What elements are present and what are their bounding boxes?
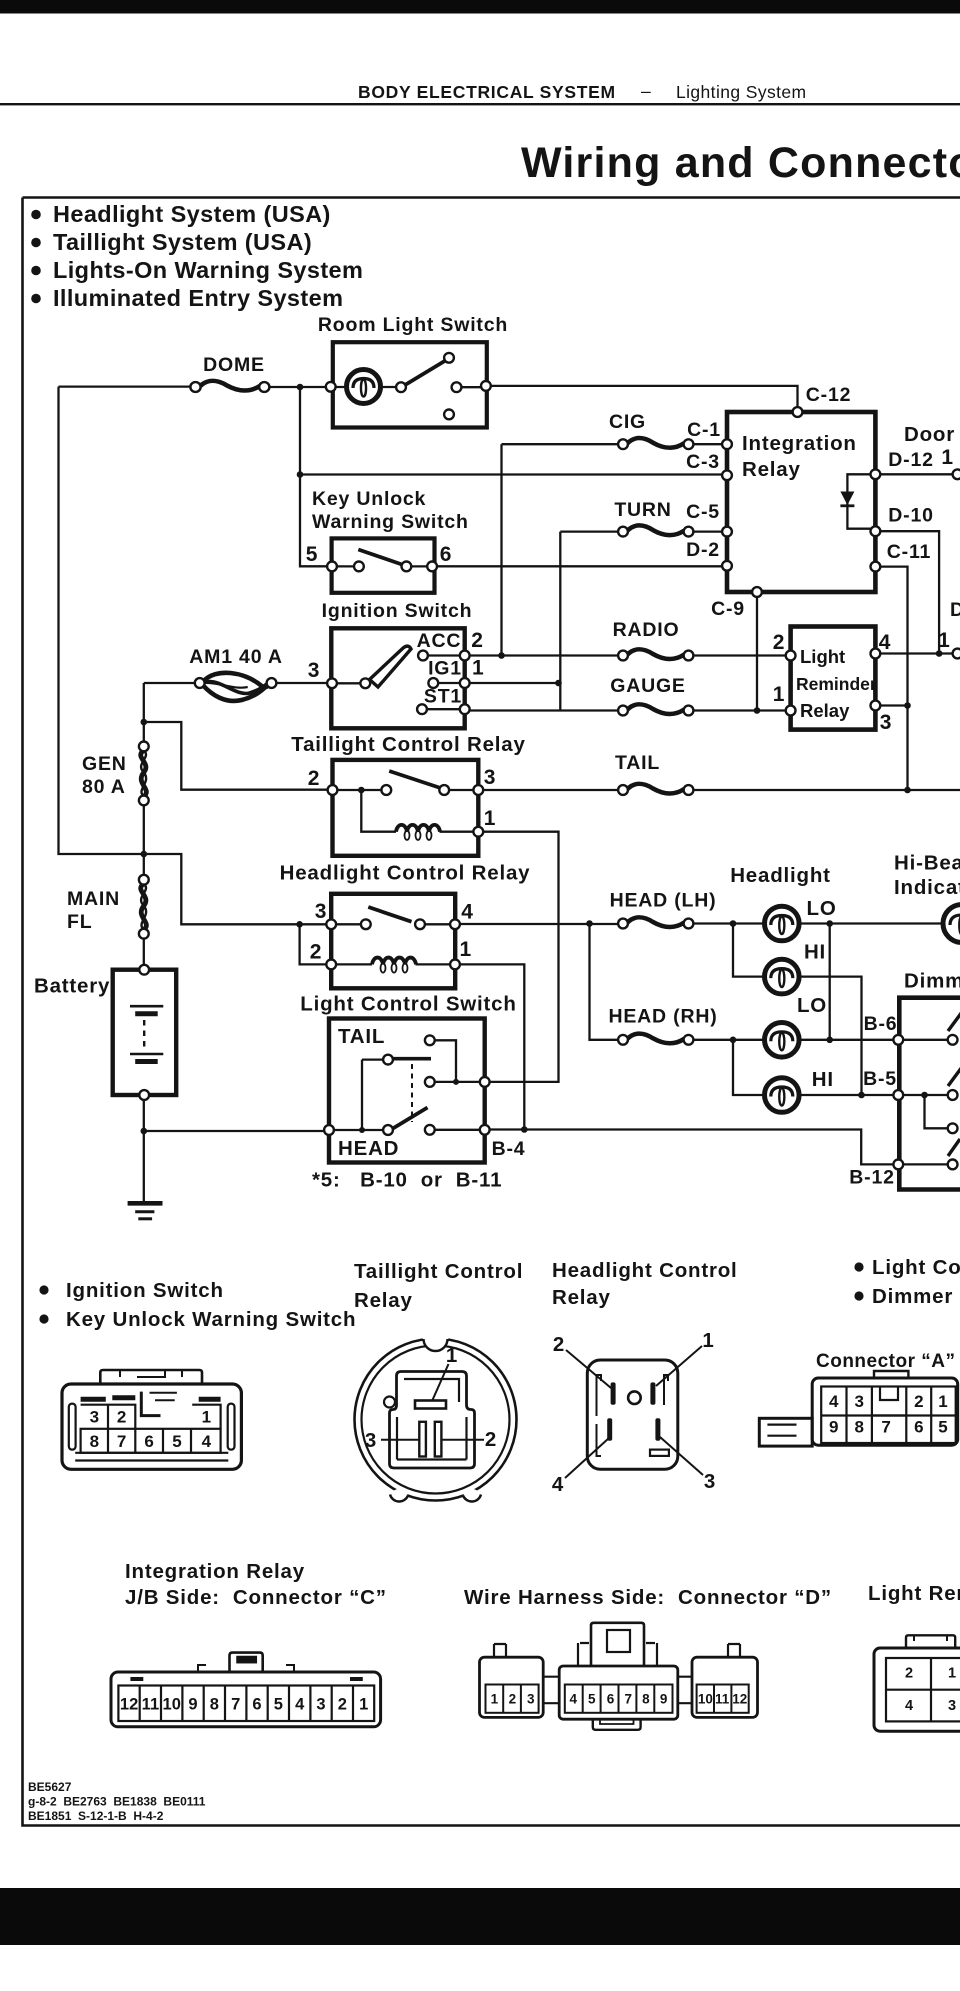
junction HI RH branch (730, 1037, 737, 1044)
diagram frame (23, 198, 960, 1826)
wire room switch out to C-12 (487, 386, 798, 411)
header rule (0, 103, 960, 105)
svg-text:4: 4 (295, 1696, 305, 1714)
svg-text:2: 2 (773, 631, 785, 654)
wire headlight relay coil 1 to HEAD row (460, 964, 525, 1129)
fuse CIG (618, 438, 693, 449)
svg-text:1: 1 (484, 807, 496, 830)
wire HI(RH) branch (733, 1040, 894, 1095)
wire IG1 stub (470, 682, 559, 684)
fusible link GEN 80 A (139, 742, 149, 806)
svg-text:Relay: Relay (742, 458, 801, 481)
svg-text:Headlight: Headlight (730, 864, 831, 887)
svg-text:C-11: C-11 (887, 541, 931, 563)
svg-text:80 A: 80 A (82, 776, 126, 798)
svg-text:HEAD (LH): HEAD (LH) (610, 890, 717, 912)
relay Headlight Control Relay (280, 862, 531, 989)
svg-text:FL: FL (67, 911, 92, 933)
svg-text:D-12: D-12 (888, 449, 933, 471)
svg-text:8: 8 (90, 1432, 99, 1451)
junction B-5 internal (921, 1092, 928, 1099)
svg-text:Light Control Switch: Light Control Switch (300, 993, 516, 1016)
svg-text:C-3: C-3 (686, 451, 720, 473)
svg-text:10: 10 (163, 1696, 181, 1714)
junction D-10 / reminder 4 (936, 650, 943, 657)
svg-text:CIG: CIG (609, 411, 646, 433)
svg-text:2: 2 (905, 1666, 913, 1682)
wire headlight relay 2 bypass (300, 924, 331, 964)
svg-text:2: 2 (914, 1392, 923, 1411)
junction HEAD row / relay coil (521, 1126, 528, 1133)
svg-text:4: 4 (905, 1698, 913, 1714)
svg-text:12: 12 (732, 1692, 747, 1707)
wire ACC-RADIO row (470, 654, 790, 656)
wire TURN feed (560, 532, 726, 711)
svg-text:8: 8 (210, 1696, 219, 1714)
svg-text:4: 4 (202, 1432, 212, 1451)
svg-text:Hi-Beam: Hi-Beam (894, 852, 960, 875)
svg-text:Dimmer Sw: Dimmer Sw (904, 970, 960, 993)
svg-text:5: 5 (588, 1692, 596, 1707)
svg-text:9: 9 (188, 1696, 197, 1714)
svg-text:Reminder: Reminder (796, 674, 877, 694)
svg-text:1: 1 (202, 1408, 211, 1427)
svg-text:Lights-On Warning System: Lights-On Warning System (53, 257, 363, 283)
svg-text:7: 7 (117, 1432, 126, 1451)
junction HI join B-5 (858, 1092, 865, 1099)
svg-text:BE1851 S-12-1-B H-4-2: BE1851 S-12-1-B H-4-2 (28, 1809, 164, 1823)
junction LO link top (826, 920, 833, 927)
svg-text:10: 10 (698, 1692, 713, 1707)
wire dome fuse to junction to switch (269, 386, 330, 388)
svg-text:Indicator: Indicator (894, 876, 960, 899)
svg-text:Door Cou: Door Cou (904, 423, 960, 446)
wire HEAD row out to B-12 (490, 1130, 894, 1165)
svg-text:Ignition Switch: Ignition Switch (322, 600, 473, 622)
wire branch to headlight relay 3 (144, 854, 330, 924)
ground (128, 1203, 163, 1219)
wire left rail down (59, 387, 144, 854)
svg-text:1: 1 (460, 938, 472, 961)
svg-text:C-12: C-12 (806, 384, 851, 406)
svg-text:DOME: DOME (203, 354, 265, 376)
svg-text:Headlight System (USA): Headlight System (USA) (53, 201, 331, 227)
svg-text:B-12: B-12 (849, 1167, 894, 1189)
svg-text:5: 5 (274, 1696, 283, 1714)
svg-text:2: 2 (117, 1408, 126, 1427)
svg-text:3: 3 (365, 1429, 377, 1452)
svg-text:5: 5 (306, 543, 318, 566)
wire dimmer B-6 internal (903, 1039, 948, 1041)
switch Room Light Switch (318, 314, 508, 428)
wire TAIL fuse row (483, 789, 960, 791)
svg-text:TAIL: TAIL (338, 1025, 385, 1048)
svg-text:1: 1 (773, 683, 785, 706)
fuse RADIO (618, 649, 693, 660)
svg-text:6: 6 (607, 1692, 615, 1707)
connector C (12-pin) (111, 1653, 381, 1727)
svg-text:g-8-2 BE2763 BE1838 BE0111: g-8-2 BE2763 BE1838 BE0111 (28, 1795, 206, 1809)
svg-text:IG1: IG1 (428, 658, 462, 680)
svg-text:Taillight Control: Taillight Control (354, 1260, 523, 1283)
svg-text:7: 7 (624, 1692, 632, 1707)
svg-text:7: 7 (881, 1418, 890, 1437)
svg-text:2: 2 (338, 1696, 347, 1714)
svg-text:Wire Harness Side: Connector: Wire Harness Side: Connector “D” (464, 1586, 832, 1609)
svg-text:3: 3 (704, 1470, 716, 1493)
lower section bullet: ignition switch (39, 1285, 48, 1294)
svg-text:Headlight Control Relay: Headlight Control Relay (280, 862, 531, 885)
svg-text:C-9: C-9 (711, 598, 745, 620)
svg-text:AM1 40 A: AM1 40 A (189, 646, 282, 668)
lower section bullet: key unlock warning switch (39, 1314, 48, 1323)
svg-text:Integration Relay: Integration Relay (125, 1560, 305, 1583)
svg-text:11: 11 (715, 1692, 730, 1707)
wire branch to taillight relay 2 (144, 722, 332, 790)
svg-text:Light: Light (800, 646, 845, 667)
bottom black bar (0, 1888, 960, 1945)
ignition key wedge (370, 646, 412, 687)
svg-text:3: 3 (90, 1408, 99, 1427)
svg-text:11: 11 (142, 1696, 159, 1714)
svg-text:Integration: Integration (742, 432, 857, 455)
wire D-2 row (437, 565, 727, 567)
svg-text:1: 1 (472, 657, 484, 680)
svg-text:RADIO: RADIO (613, 619, 680, 641)
svg-text:D: D (950, 599, 960, 621)
wire D-12 out to door courtesy (880, 473, 953, 475)
svg-text:MAIN: MAIN (67, 888, 120, 910)
svg-text:LO: LO (797, 994, 827, 1017)
lamp in room light switch (347, 370, 381, 404)
junction battery out (141, 1128, 148, 1135)
top black bar (0, 0, 960, 14)
svg-text:6: 6 (252, 1696, 261, 1714)
svg-text:5: 5 (172, 1432, 181, 1451)
svg-text:4: 4 (552, 1473, 564, 1496)
wire HEAD(LH) row (460, 922, 942, 925)
svg-text:4: 4 (570, 1692, 578, 1707)
relay Light Reminder Relay (773, 627, 892, 735)
svg-text:3: 3 (527, 1692, 535, 1707)
fuse HEAD (RH) (618, 1034, 693, 1045)
svg-text:2: 2 (308, 767, 320, 790)
footer figure codes (28, 1780, 206, 1823)
svg-text:1: 1 (938, 1392, 947, 1411)
wire C-9 drop (756, 593, 758, 711)
fuse HEAD (LH) (618, 917, 693, 928)
connector A (759, 1371, 957, 1446)
svg-text:C-1: C-1 (687, 419, 721, 441)
junction LO link bottom (826, 1037, 833, 1044)
lamp headlight HI (RH) (765, 1078, 800, 1113)
svg-text:3: 3 (484, 766, 496, 789)
connector D (12-pin, 3 blocks) (480, 1623, 758, 1730)
svg-text:Key Unlock: Key Unlock (312, 488, 426, 510)
svg-text:3: 3 (854, 1392, 863, 1411)
wire ST1-GAUGE row (470, 709, 790, 711)
connector headlight control relay (square) (565, 1346, 703, 1478)
junction HEAD RH branch (586, 920, 593, 927)
lamp headlight LO (LH) (765, 906, 800, 941)
svg-text:Battery: Battery (34, 975, 110, 998)
switch Light Control Switch (300, 993, 525, 1163)
svg-text:GEN: GEN (82, 753, 127, 775)
wire D-10 down to reminder 4 row (880, 531, 939, 653)
svg-text:D-10: D-10 (888, 505, 933, 527)
svg-text:ST1: ST1 (424, 686, 462, 708)
svg-text:3: 3 (948, 1698, 956, 1714)
fuse TURN (618, 525, 693, 536)
fuse DOME (190, 381, 269, 392)
switch Dimmer Switch (849, 970, 960, 1190)
wire dimmer B-12 internal (903, 1163, 948, 1165)
wire HI(LH) branch (733, 924, 862, 1096)
svg-text:BE5627: BE5627 (28, 1780, 72, 1794)
connector taillight control relay (round) (355, 1339, 517, 1501)
svg-text:HI: HI (804, 941, 826, 964)
junction headlight relay 2 (296, 921, 303, 928)
svg-text:1: 1 (446, 1344, 458, 1367)
junction C-11 / reminder 3 (904, 702, 911, 709)
svg-text:Relay: Relay (552, 1286, 611, 1309)
svg-text:J/B Side: Connector “C”: J/B Side: Connector “C” (125, 1586, 387, 1609)
svg-text:HI: HI (812, 1068, 834, 1091)
svg-text:GAUGE: GAUGE (610, 675, 686, 697)
junction TAIL row (904, 787, 911, 794)
connector ignition switch (8-pin) (62, 1370, 241, 1469)
junction AM1 rail (141, 719, 148, 726)
svg-text:LO: LO (807, 897, 837, 920)
svg-text:12: 12 (120, 1696, 138, 1714)
svg-text:Warning Switch: Warning Switch (312, 511, 469, 533)
svg-text:ACC: ACC (417, 630, 462, 652)
svg-text:1: 1 (948, 1666, 956, 1682)
wire AM1 row (144, 682, 331, 684)
svg-text:2: 2 (471, 629, 483, 652)
svg-text:6: 6 (144, 1432, 153, 1451)
svg-text:1: 1 (491, 1692, 499, 1707)
junction CIG/ACC (498, 652, 505, 659)
wire reminder 4 out (880, 652, 953, 654)
wire dome vertical to key unlock (300, 387, 331, 566)
svg-text:Taillight Control Relay: Taillight Control Relay (291, 733, 525, 756)
svg-text:3: 3 (316, 1696, 325, 1714)
svg-text:Ignition Switch: Ignition Switch (66, 1279, 224, 1302)
connector light reminder relay (cut at edge) (874, 1635, 960, 1731)
svg-text:TAIL: TAIL (615, 752, 660, 774)
svg-text:3: 3 (308, 659, 320, 682)
lamp hi-beam indicator (cut at edge) (943, 905, 960, 943)
fuse GAUGE (618, 704, 693, 715)
svg-text:3: 3 (315, 900, 327, 923)
svg-text:C-5: C-5 (686, 501, 720, 523)
svg-text:2: 2 (509, 1692, 517, 1707)
junction C-3 branch (297, 471, 304, 478)
svg-text:B-5: B-5 (863, 1068, 897, 1090)
wire taillight relay 1 to light control switch TAIL (483, 832, 559, 1082)
svg-text:9: 9 (660, 1692, 668, 1707)
svg-text:4: 4 (829, 1392, 839, 1411)
lamp headlight LO (RH) (765, 1023, 800, 1058)
battery (34, 965, 176, 1100)
wire CIG feed (502, 444, 727, 655)
svg-text:2: 2 (553, 1333, 565, 1356)
svg-text:Relay: Relay (354, 1289, 413, 1312)
svg-text:2: 2 (310, 941, 322, 964)
lower bullets right: light control switch / dimmer switch (854, 1262, 863, 1271)
door courtesy switch terminal (cut) (953, 469, 960, 479)
svg-text:D-2: D-2 (686, 539, 720, 561)
page header text (358, 81, 807, 102)
junction C-9/GAUGE (754, 707, 761, 714)
wire main rail (143, 683, 145, 969)
junction dome/room-switch (297, 384, 304, 391)
wire dimmer B-5 internals (903, 1095, 948, 1128)
svg-text:Headlight Control: Headlight Control (552, 1259, 738, 1282)
svg-text:*5: B-10 or B-11: *5: B-10 or B-11 (312, 1169, 502, 1192)
svg-text:Room Light Switch: Room Light Switch (318, 314, 508, 336)
svg-text:8: 8 (854, 1418, 863, 1437)
svg-text:BODY ELECTRICAL SYSTEM: BODY ELECTRICAL SYSTEM (358, 82, 616, 102)
svg-text:4: 4 (461, 901, 473, 924)
svg-text:B-4: B-4 (492, 1138, 526, 1160)
svg-text:8: 8 (642, 1692, 650, 1707)
svg-text:7: 7 (231, 1696, 240, 1714)
svg-text:1: 1 (359, 1696, 368, 1714)
diode in integration relay (847, 474, 875, 528)
relay Integration Relay (686, 407, 880, 620)
svg-text:B-6: B-6 (864, 1013, 898, 1035)
svg-text:1: 1 (941, 446, 953, 469)
svg-text:–: – (641, 81, 651, 101)
svg-text:Dimmer S: Dimmer S (872, 1285, 960, 1308)
svg-text:HEAD (RH): HEAD (RH) (608, 1006, 717, 1028)
svg-text:Relay: Relay (800, 700, 850, 721)
lamp headlight HI (LH) (765, 959, 800, 994)
switch Ignition Switch (308, 600, 485, 728)
wire HEAD(RH) drop and row (590, 924, 894, 1040)
wire battery to ground and light control switch (144, 1095, 328, 1203)
junction TURN/IG1 (555, 680, 562, 687)
svg-text:Lighting System: Lighting System (676, 82, 807, 102)
svg-text:6: 6 (440, 543, 452, 566)
svg-text:Connector “A”: Connector “A” (816, 1351, 956, 1372)
svg-text:1: 1 (702, 1329, 714, 1352)
fusible link AM1 40 A (195, 673, 277, 701)
fuse TAIL (618, 784, 693, 795)
wire C-3 row (300, 473, 726, 475)
svg-text:Taillight System (USA): Taillight System (USA) (53, 229, 312, 255)
svg-text:Light Con: Light Con (872, 1256, 960, 1279)
svg-text:Key Unlock Warning Switch: Key Unlock Warning Switch (66, 1308, 356, 1331)
svg-text:TURN: TURN (614, 499, 671, 521)
svg-text:Wiring and Connector Diag: Wiring and Connector Diag (521, 139, 960, 187)
switch Key Unlock Warning Switch (306, 488, 469, 593)
junction HI LH branch (730, 920, 737, 927)
svg-text:6: 6 (914, 1418, 923, 1437)
svg-text:HEAD: HEAD (338, 1137, 399, 1160)
wire LO(LH) to LO(RH) link (829, 924, 831, 1040)
svg-text:9: 9 (829, 1418, 838, 1437)
wire C-11 down to reminder 3 and TAIL row (880, 567, 908, 790)
svg-text:Light Reminder: Light Reminder (868, 1582, 960, 1605)
relay Taillight Control Relay (291, 733, 525, 856)
wire dome feed top (59, 385, 191, 387)
svg-text:2: 2 (485, 1428, 497, 1451)
svg-text:Illuminated Entry System: Illuminated Entry System (53, 285, 343, 311)
junction GEN rail (141, 851, 148, 858)
svg-text:1: 1 (938, 629, 950, 652)
svg-text:5: 5 (938, 1418, 947, 1437)
fusible link MAIN FL (139, 875, 149, 939)
bullet list (31, 201, 363, 311)
svg-text:3: 3 (880, 711, 892, 734)
